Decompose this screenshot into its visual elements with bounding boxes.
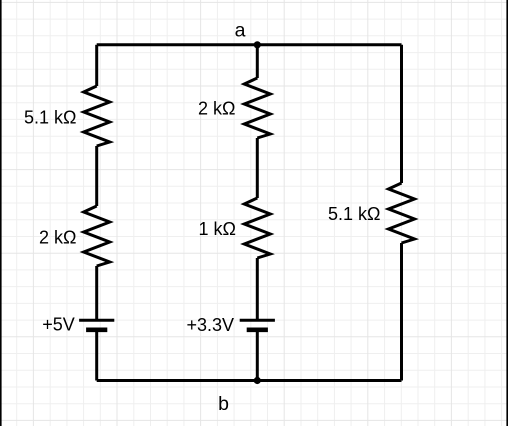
svg-text:1 kΩ: 1 kΩ [199, 219, 236, 239]
wire: left branch battery to bottom rail [95, 330, 98, 381]
battery V1 +5V positive plate [79, 319, 114, 322]
wire: middle branch resistor to battery [256, 258, 259, 320]
battery V2 +3.3V positive plate [240, 319, 275, 322]
wire: left branch resistor to battery [95, 266, 98, 320]
wire: right branch bottom segment [400, 243, 403, 381]
node b junction dot [254, 377, 261, 384]
resistor R1 5.1 kOhm (left top) [84, 86, 110, 146]
svg-text:a: a [235, 20, 246, 42]
wire: left branch top segment [95, 45, 98, 86]
wire: middle branch top segment from node a [256, 45, 259, 78]
battery V1 +5V negative plate [86, 327, 107, 332]
left screen border bar [0, 0, 2, 426]
resistor R2 2 kOhm (left bottom) [84, 206, 110, 266]
node a junction dot [254, 41, 261, 48]
wire: right branch top segment [400, 45, 403, 183]
wire: left branch between resistors [95, 146, 98, 206]
resistor R4 1 kOhm (middle bottom) [244, 198, 270, 258]
svg-text:2 kΩ: 2 kΩ [39, 227, 76, 247]
wire: bottom rail from left branch to right branch through node b [97, 379, 402, 382]
wire: top rail from left branch to right branch through node a [97, 43, 402, 46]
resistor R3 2 kOhm (middle top) [244, 78, 270, 138]
svg-text:+5V: +5V [42, 315, 75, 335]
svg-text:5.1 kΩ: 5.1 kΩ [24, 108, 76, 128]
resistor R5 5.1 kOhm (right) [389, 183, 415, 243]
svg-text:2 kΩ: 2 kΩ [198, 98, 235, 118]
svg-text:5.1 kΩ: 5.1 kΩ [328, 204, 380, 224]
svg-text:b: b [218, 393, 229, 415]
battery V2 +3.3V negative plate [247, 327, 268, 332]
right screen border bar [506, 0, 508, 426]
svg-text:+3.3V: +3.3V [186, 315, 234, 335]
wire: middle branch between resistors [256, 138, 259, 198]
wire: middle branch battery to node b [256, 330, 259, 381]
